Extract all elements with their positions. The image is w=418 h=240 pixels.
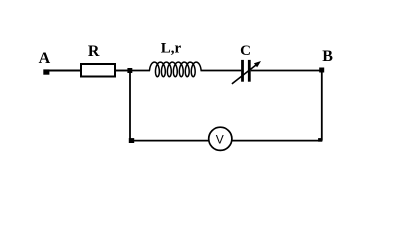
inductor L,r: [150, 62, 202, 77]
node A: [43, 69, 49, 74]
corner node bottom-left: [129, 138, 134, 143]
wire B down: [321, 71, 323, 141]
wire A to R: [46, 70, 81, 72]
junction node: [127, 68, 132, 73]
wire C to B: [251, 70, 322, 72]
capacitor C plate left: [241, 60, 244, 82]
svg-text:R: R: [88, 43, 100, 60]
svg-text:L,r: L,r: [161, 41, 182, 57]
node B: [319, 68, 324, 73]
voltmeter V: [209, 127, 232, 150]
wire junction to L: [130, 70, 150, 72]
bottom wire left: [130, 140, 209, 142]
bottom wire right: [232, 140, 322, 142]
svg-text:V: V: [216, 132, 224, 146]
capacitor C plate right: [248, 60, 251, 82]
svg-text:C: C: [240, 43, 251, 59]
wire L to C: [201, 70, 242, 72]
wire junction down: [129, 71, 131, 141]
svg-text:A: A: [39, 50, 51, 67]
wire R to junction: [116, 70, 131, 72]
resistor R: [81, 64, 115, 77]
svg-text:B: B: [322, 48, 333, 65]
variable capacitor arrow: [232, 61, 261, 84]
corner node bottom-right: [318, 138, 322, 142]
